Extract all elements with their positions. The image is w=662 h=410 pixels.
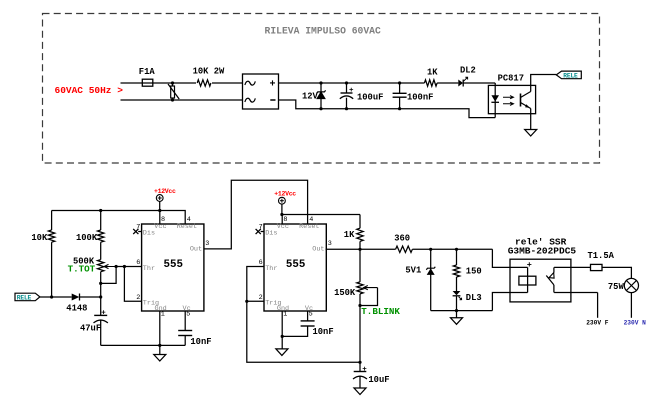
svg-text:Reset: Reset bbox=[177, 223, 197, 231]
wire pin8 drop (U1) bbox=[159, 211, 161, 225]
svg-text:4148: 4148 bbox=[66, 304, 87, 314]
resistor R 100K bbox=[76, 211, 104, 260]
wire gnd pin lead (U2) bbox=[281, 311, 308, 338]
wire vcc rail 2 bbox=[280, 213, 360, 216]
svg-text:Dis: Dis bbox=[143, 229, 155, 237]
power +12Vcc (1) bbox=[154, 188, 176, 211]
svg-text:T1.5A: T1.5A bbox=[588, 251, 615, 261]
capacitor C 100nF bbox=[393, 81, 434, 110]
svg-text:230V F: 230V F bbox=[586, 320, 609, 327]
svg-text:RELE: RELE bbox=[17, 295, 32, 302]
label 230V N bbox=[624, 320, 647, 327]
fuse F1A bbox=[139, 67, 156, 86]
svg-text:10K 2W: 10K 2W bbox=[193, 67, 225, 77]
svg-text:47uF: 47uF bbox=[80, 324, 101, 334]
capacitor C 47uF bbox=[80, 310, 108, 346]
svg-text:PC817: PC817 bbox=[498, 74, 524, 84]
wire RELE to diode bbox=[40, 295, 72, 298]
ground under 10uF bbox=[354, 388, 366, 395]
zener D 5V1 bbox=[405, 249, 435, 310]
svg-text:6: 6 bbox=[259, 259, 263, 267]
power +12Vcc (2) bbox=[274, 190, 296, 214]
resistor R 1K (U2) bbox=[344, 215, 363, 250]
svg-text:150K: 150K bbox=[334, 288, 356, 298]
svg-text:RELE: RELE bbox=[563, 72, 578, 79]
svg-text:+: + bbox=[362, 366, 367, 374]
resistor R 360 bbox=[394, 233, 412, 252]
wire bottom input line bbox=[121, 99, 243, 101]
svg-text:4: 4 bbox=[309, 216, 313, 224]
wire ground rail (U1) bbox=[101, 344, 186, 347]
svg-text:+: + bbox=[101, 310, 106, 318]
svg-text:100nF: 100nF bbox=[407, 93, 433, 103]
LED DL3 bbox=[453, 291, 482, 311]
wire diode to node bbox=[80, 295, 103, 298]
diode 4148 bbox=[66, 294, 87, 314]
svg-text:Out: Out bbox=[190, 246, 202, 254]
svg-text:1K: 1K bbox=[427, 67, 438, 77]
svg-text:DL2: DL2 bbox=[460, 66, 476, 76]
svg-text:5: 5 bbox=[309, 310, 313, 318]
fuse T1.5A bbox=[588, 251, 615, 271]
wire DL2 to optocoupler bbox=[463, 82, 495, 84]
wire 1K to DL2 bbox=[437, 82, 458, 84]
varistor bbox=[168, 81, 179, 101]
capacitor C 100uF bbox=[340, 81, 384, 110]
wire bridge minus output bbox=[279, 100, 496, 118]
zener D 12V bbox=[302, 81, 326, 110]
wire collector to RELE flag bbox=[531, 75, 557, 86]
svg-text:DL3: DL3 bbox=[466, 293, 482, 303]
potentiometer 150K T.BLINK bbox=[334, 249, 400, 317]
svg-text:2: 2 bbox=[259, 294, 263, 302]
resistor R 150 bbox=[453, 249, 481, 291]
svg-text:8: 8 bbox=[283, 216, 287, 224]
svg-text:8: 8 bbox=[161, 216, 165, 224]
wire switch output bbox=[554, 293, 598, 318]
wire bottom rail to SSR bbox=[431, 293, 510, 313]
svg-text:RILEVA IMPULSO 60VAC: RILEVA IMPULSO 60VAC bbox=[265, 26, 381, 37]
svg-text:10uF: 10uF bbox=[368, 375, 389, 385]
svg-text:75W: 75W bbox=[608, 282, 625, 292]
svg-text:150: 150 bbox=[466, 267, 482, 277]
wire to fuse bbox=[554, 266, 590, 268]
LED DL2 bbox=[458, 66, 476, 87]
svg-text:5V1: 5V1 bbox=[405, 266, 421, 276]
wire Out2 node bbox=[326, 248, 511, 268]
svg-text:+: + bbox=[349, 87, 354, 95]
enclosure dashed box rileva impulso bbox=[43, 14, 600, 164]
ground under DL3 bbox=[451, 311, 463, 325]
resistor R 10K 2W bbox=[193, 67, 225, 89]
svg-text:1: 1 bbox=[283, 310, 287, 318]
svg-text:Reset: Reset bbox=[299, 223, 319, 231]
wire vc pin lead (U1) bbox=[184, 311, 186, 331]
ground under U2 bbox=[276, 336, 288, 355]
IC timer 555 U2 bbox=[256, 216, 332, 318]
svg-text:12V: 12V bbox=[302, 92, 319, 102]
wire gnd pin lead (U1) bbox=[159, 311, 161, 345]
wire pot2 bottom lead bbox=[359, 294, 361, 372]
net label RELE input flag bbox=[15, 293, 40, 301]
wire fuse to lamp bbox=[602, 267, 631, 278]
wire vcc rail 1 bbox=[52, 209, 186, 224]
wire lamp down bbox=[630, 293, 632, 318]
svg-text:60VAC 50Hz >: 60VAC 50Hz > bbox=[55, 85, 124, 96]
svg-text:10nF: 10nF bbox=[313, 327, 334, 337]
resistor R 10K (left) bbox=[31, 211, 54, 298]
svg-text:3: 3 bbox=[205, 240, 209, 248]
svg-text:Out: Out bbox=[312, 246, 324, 254]
svg-text:6: 6 bbox=[136, 259, 140, 267]
svg-text:T.TOT: T.TOT bbox=[68, 264, 96, 275]
svg-text:100uF: 100uF bbox=[357, 93, 383, 103]
svg-text:10K: 10K bbox=[31, 233, 48, 243]
svg-text:Thr: Thr bbox=[265, 265, 277, 273]
lamp 75W bbox=[608, 278, 639, 292]
potentiometer 500K T.TOT bbox=[68, 257, 117, 275]
capacitor C 10nF (U1) bbox=[178, 331, 211, 348]
wire wiper loop to pot bottom bbox=[99, 267, 116, 286]
svg-text:230V N: 230V N bbox=[624, 320, 647, 327]
IC timer 555 U1 bbox=[133, 216, 209, 318]
svg-text:555: 555 bbox=[164, 259, 183, 271]
svg-text:+12Vcc: +12Vcc bbox=[274, 190, 296, 197]
wire top input line bbox=[121, 82, 243, 84]
capacitor C 10uF bbox=[353, 366, 390, 388]
wire Out1 to Reset2 bbox=[204, 180, 308, 249]
ground under optocoupler bbox=[525, 130, 537, 137]
resistor R 1K bbox=[424, 67, 438, 86]
wire bridge plus output bbox=[279, 82, 425, 84]
svg-text:F1A: F1A bbox=[139, 67, 156, 77]
wire wiper to Thr (U1) bbox=[115, 265, 142, 268]
title RILEVA IMPULSO 60VAC bbox=[265, 26, 381, 37]
optocoupler PC817 bbox=[488, 74, 535, 118]
svg-text:100K: 100K bbox=[76, 233, 98, 243]
svg-text:T.BLINK: T.BLINK bbox=[361, 306, 400, 317]
svg-text:1: 1 bbox=[161, 310, 165, 318]
svg-text:3: 3 bbox=[328, 240, 332, 248]
wire pin8 drop (U2) bbox=[281, 215, 283, 225]
wire pot bottom lead bbox=[100, 272, 102, 316]
wire trig link (U1) bbox=[124, 267, 141, 302]
svg-text:Thr: Thr bbox=[143, 265, 155, 273]
capacitor C 10nF (U2) bbox=[301, 311, 334, 337]
svg-text:4: 4 bbox=[187, 216, 191, 224]
bridge rectifier bbox=[243, 74, 279, 109]
net 60VAC 50Hz input label bbox=[55, 85, 124, 96]
svg-text:Vcc: Vcc bbox=[154, 223, 166, 231]
wire emitter to ground bbox=[530, 109, 532, 130]
svg-text:G3MB-202PDC5: G3MB-202PDC5 bbox=[508, 246, 577, 257]
svg-text:1K: 1K bbox=[344, 230, 355, 240]
net label RELE output flag bbox=[556, 71, 581, 79]
relay SSR G3MB-202PDC5 bbox=[508, 237, 577, 302]
ground under U1 bbox=[154, 345, 166, 361]
svg-text:Vcc: Vcc bbox=[277, 223, 289, 231]
svg-text:+12Vcc: +12Vcc bbox=[154, 188, 176, 195]
svg-text:10nF: 10nF bbox=[190, 337, 211, 347]
wire Thr2 Trig2 link bbox=[245, 267, 361, 364]
svg-text:360: 360 bbox=[394, 233, 410, 243]
svg-text:2: 2 bbox=[136, 294, 140, 302]
label 230V F bbox=[586, 320, 609, 327]
svg-text:5: 5 bbox=[186, 310, 190, 318]
svg-text:Dis: Dis bbox=[265, 229, 277, 237]
svg-text:555: 555 bbox=[286, 259, 305, 271]
svg-text:+: + bbox=[270, 80, 276, 91]
